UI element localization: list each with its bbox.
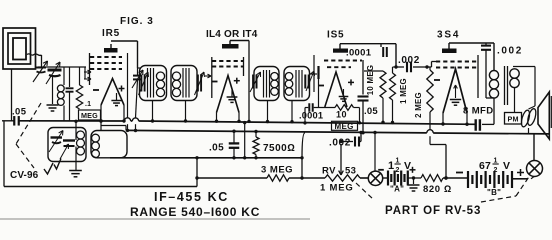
wire grid top (38, 66, 86, 68)
svg-text:IS5: IS5 (327, 30, 344, 41)
check mark 2 (54, 159, 61, 170)
resistor 2 MEG (429, 67, 431, 70)
svg-text:IR5: IR5 (102, 28, 120, 39)
wire T2 out (310, 73, 318, 75)
wire T1 out (205, 75, 211, 77)
tube IL4 envelope (211, 57, 213, 98)
svg-text:.002: .002 (497, 46, 523, 57)
svg-text:FIG. 3: FIG. 3 (120, 16, 154, 27)
svg-text:3S4: 3S4 (437, 30, 460, 41)
wire 1S5 plate top (340, 43, 396, 45)
capacitor .0001 (fb) (380, 44, 382, 47)
svg-text:820 Ω: 820 Ω (423, 184, 452, 195)
wire 1R5 side (127, 53, 129, 118)
ground (1R5) (116, 93, 118, 100)
svg-text:RV: RV (322, 166, 336, 177)
wire B- (430, 144, 446, 146)
wire bus C riser (302, 133, 305, 158)
tube IL4 filament (217, 76, 240, 113)
svg-text:1 MEG: 1 MEG (320, 183, 354, 194)
svg-text:"B": "B" (487, 188, 501, 197)
tube 1S5 grids (324, 60, 362, 62)
oscillator coil T2b (91, 131, 127, 158)
svg-text:PART OF RV-53: PART OF RV-53 (385, 205, 481, 217)
wire lamp B riser (533, 134, 535, 160)
wire left edge (2, 120, 14, 122)
bus B (126, 130, 549, 134)
resistor 1 MEG (393, 66, 397, 68)
tube 3S4 plate (442, 49, 457, 54)
ground (IL4) (231, 90, 233, 97)
tube 1R5 plate (104, 48, 118, 53)
resistor 820 (421, 175, 443, 182)
wire 1R5 plate to T1 (111, 40, 138, 42)
wire 3S4 plate (449, 42, 494, 44)
loop antenna (3, 28, 36, 69)
svg-text:CV-96: CV-96 (10, 170, 39, 181)
1S5 diode plate (317, 66, 319, 79)
label PM box (505, 113, 522, 125)
capacitor .002 (coupling) (396, 66, 404, 68)
capacitor (grid) (69, 67, 71, 87)
wire osc vertical (75, 121, 77, 140)
bus C osc return (110, 157, 302, 159)
svg-text:.0001: .0001 (299, 111, 323, 121)
tube 3S4 grids (436, 61, 477, 63)
ground (antenna) (47, 104, 59, 106)
wire left drop to AVC bus (3, 121, 5, 187)
tube 1R5 envelope (89, 53, 91, 85)
svg-text:10 MEG: 10 MEG (366, 65, 375, 95)
speaker cone (538, 92, 549, 139)
dashed gang line (16, 103, 41, 144)
check mark 1 (44, 163, 53, 174)
svg-text:RANGE 540–I600 KC: RANGE 540–I600 KC (130, 205, 260, 219)
wire cap to ground (52, 77, 54, 104)
oscillator trimmer cap (137, 68, 139, 75)
volume pot RV-53 (325, 175, 360, 181)
tube 1R5 grids (90, 56, 122, 58)
tube 3S4 envelope (477, 55, 479, 98)
tube IL4 grids (212, 60, 243, 62)
grid lead arrows (84, 67, 86, 79)
svg-text:MEG: MEG (81, 111, 98, 120)
svg-text:53: 53 (345, 166, 356, 177)
svg-text:8 MFD: 8 MFD (463, 106, 494, 117)
T2b stubs (100, 120, 102, 131)
svg-text:2: 2 (396, 167, 400, 174)
tube 1S5 envelope (313, 55, 315, 92)
tube 1S5 filament (325, 72, 347, 107)
box label MEG (79, 110, 101, 120)
IL4 filament legs (216, 113, 218, 122)
svg-text:3 MEG: 3 MEG (261, 165, 293, 176)
svg-text:IL4 OR IT4: IL4 OR IT4 (206, 29, 258, 40)
svg-text:.05: .05 (364, 106, 378, 117)
output transformer primary (489, 71, 498, 80)
antenna coil (63, 67, 65, 85)
IF T2 can A (254, 67, 279, 101)
arrow + ground (3S4) (455, 85, 457, 98)
pilot lamp B (527, 161, 543, 177)
bus A (19, 121, 475, 125)
junction B- (444, 176, 447, 179)
IF T2 can B (284, 67, 310, 101)
T2 stubs (267, 101, 269, 122)
capacitor .0001 (diode load) (305, 107, 308, 109)
svg-text:.1: .1 (85, 101, 91, 108)
tube 1S5 plate (333, 49, 348, 53)
wire AVC to 3MEG (197, 177, 267, 179)
svg-text:1 MEG: 1 MEG (399, 78, 408, 104)
svg-text:.002: .002 (329, 138, 351, 149)
svg-text:V: V (503, 160, 510, 172)
bus D AVC (4, 186, 197, 188)
wire filament return (244, 123, 246, 158)
resistor 1 MEG grid leak (79, 67, 81, 85)
scan artifact line (0, 218, 310, 220)
ground (battery A) (413, 178, 415, 184)
output transformer core (504, 66, 506, 105)
tube IL4 plate (222, 44, 239, 49)
3S4 filament legs (442, 113, 444, 124)
IF T1 can B (171, 66, 197, 101)
variable capacitor (tuning) (36, 67, 47, 69)
resistor 10 MEG (380, 71, 386, 98)
svg-text:.0001: .0001 (346, 48, 372, 59)
ground (osc) (69, 170, 82, 172)
T1 stubs (152, 101, 154, 122)
svg-text:"A": "A" (390, 185, 404, 194)
wire 1S5 out (362, 60, 364, 95)
svg-text:10: 10 (336, 110, 347, 120)
svg-text:IF–455 KC: IF–455 KC (154, 190, 229, 204)
svg-text:1: 1 (388, 160, 394, 172)
IF T1 can A (140, 66, 167, 101)
resistor 7500 (255, 132, 257, 138)
wire AV node (364, 70, 383, 72)
box label MEG (332, 121, 358, 130)
svg-text:.002: .002 (398, 55, 420, 66)
svg-text:2 MEG: 2 MEG (414, 92, 423, 118)
dashed boundary PART OF RV-53 (356, 183, 374, 200)
capacitor .002 (plate bypass) (485, 43, 487, 46)
trimmer capacitor (48, 69, 62, 72)
ground (1S5) (343, 89, 345, 96)
speaker voice coil (520, 109, 531, 127)
pilot lamp A (368, 171, 382, 185)
output transformer secondary (510, 69, 519, 78)
svg-text:67: 67 (479, 160, 491, 172)
oscillator padder box (48, 128, 86, 162)
wire grid lead 3S4 (427, 66, 432, 68)
svg-text:7500Ω: 7500Ω (263, 143, 295, 154)
wire filament legs (100, 105, 102, 121)
wire IL4 plate to T2 (230, 40, 249, 42)
tube 1R5 filament (101, 79, 124, 106)
svg-text:.05: .05 (12, 107, 27, 118)
wire antenna down (11, 69, 13, 121)
tube 3S4 filament (443, 69, 467, 113)
capacitor .05 (right) (358, 95, 369, 97)
resistor 10 MEG (diode load) (335, 105, 354, 111)
svg-text:.05: .05 (209, 143, 224, 154)
svg-text:PM: PM (508, 114, 519, 123)
